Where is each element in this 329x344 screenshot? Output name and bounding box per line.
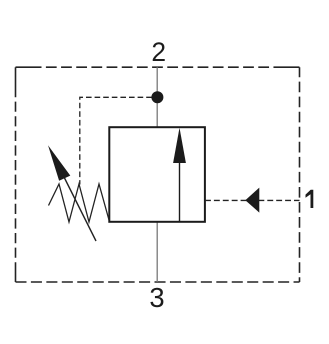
valve body V1 (square)	[109, 127, 205, 222]
enclosure dashed boundary (valve cartridge envelope)	[16, 67, 300, 282]
spring (adjustable)	[49, 184, 110, 222]
wire: port 3 line (valve body to boundary)	[156, 222, 158, 282]
flow arrow inside valve body	[173, 128, 186, 222]
pilot line (dashed) from junction to spring	[80, 97, 152, 184]
adjustment arrow across spring	[48, 145, 96, 241]
svg-text:3: 3	[149, 282, 164, 313]
junction node (pilot tap on port 2 line)	[151, 91, 163, 103]
port 1 label	[306, 190, 314, 208]
wire: port 2 line (boundary to valve body)	[156, 67, 158, 127]
port 1 pilot line (dashed, valve body to boundary)	[205, 199, 300, 201]
port 1 flow arrowhead	[245, 188, 259, 213]
svg-text:2: 2	[151, 37, 166, 67]
